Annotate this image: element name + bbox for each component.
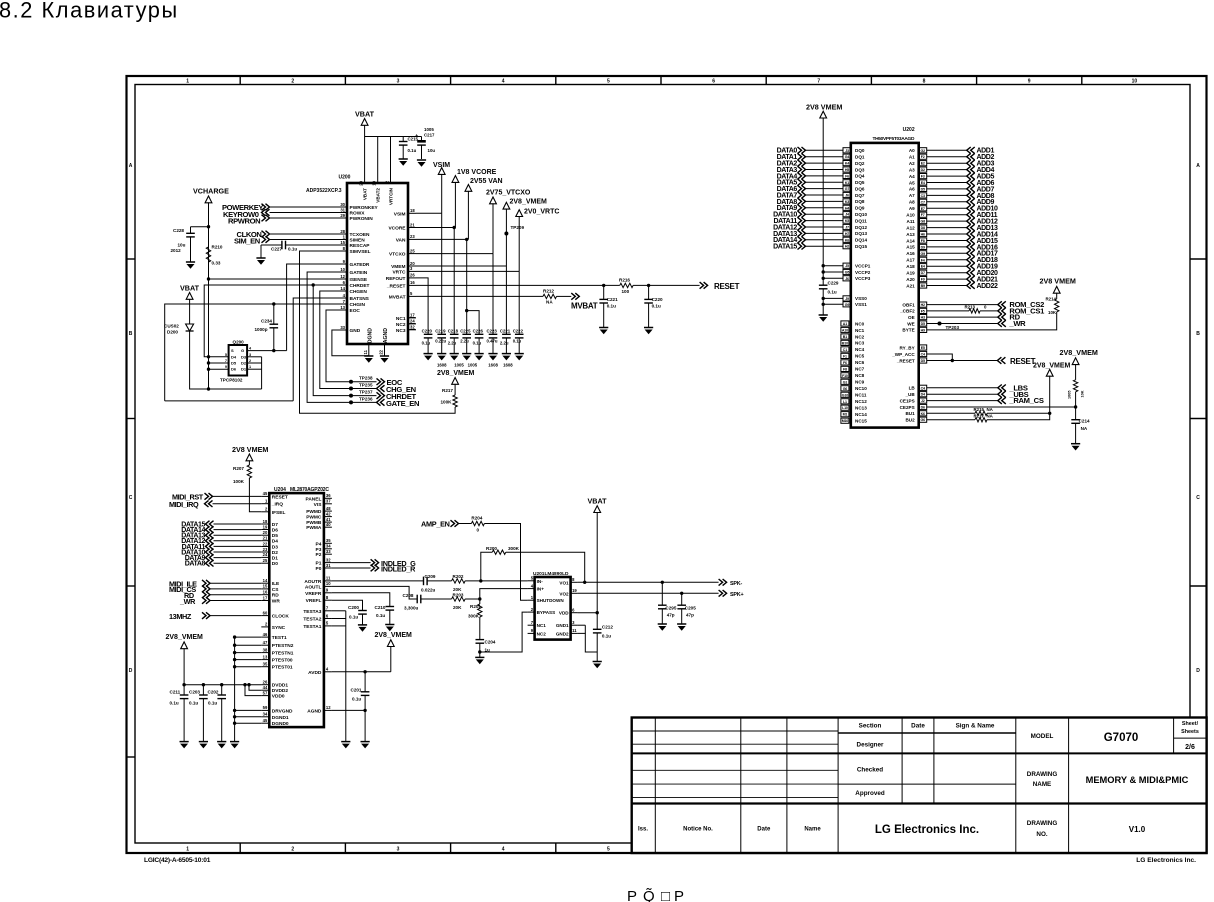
resistor R204 [471, 521, 484, 525]
svg-text:10u: 10u [178, 243, 186, 248]
ground C215 [399, 158, 408, 160]
wire VO1 long [578, 581, 719, 583]
ground C200 [358, 624, 367, 626]
svg-text:A9: A9 [909, 206, 915, 211]
svg-text:3: 3 [397, 79, 400, 85]
svg-text:PWMA: PWMA [306, 525, 322, 531]
svg-text:C226: C226 [473, 329, 484, 334]
svg-text:MIDI_IRQ: MIDI_IRQ [169, 500, 199, 509]
svg-text:G8: G8 [920, 220, 925, 224]
svg-text:D6: D6 [231, 367, 237, 372]
svg-text:0.1u: 0.1u [208, 701, 217, 706]
pin CE1PS [919, 398, 927, 403]
svg-text:CHGEN: CHGEN [350, 289, 368, 295]
junction C295 [661, 581, 664, 584]
svg-text:E4: E4 [921, 265, 925, 269]
svg-text:20: 20 [263, 530, 268, 535]
svg-text:RESET: RESET [714, 282, 740, 291]
svg-text:TP236: TP236 [359, 396, 373, 401]
svg-text:Sheets: Sheets [1181, 729, 1199, 735]
svg-text:2.2u: 2.2u [500, 341, 509, 346]
svg-text:DQ5: DQ5 [855, 180, 865, 185]
svg-text:Date: Date [757, 827, 771, 833]
svg-text:Р: Р [674, 888, 684, 902]
svg-text:E5: E5 [921, 346, 925, 350]
svg-text:PTESTN1: PTESTN1 [272, 651, 294, 657]
signal ADD21 [919, 277, 927, 282]
signal ADD18 [919, 257, 927, 262]
pin K1 [843, 180, 851, 185]
svg-text:TP209: TP209 [511, 225, 525, 230]
svg-text:DQ6: DQ6 [855, 186, 865, 191]
svg-text:D3: D3 [272, 545, 278, 551]
svg-text:100K: 100K [441, 400, 453, 405]
svg-text:VSIM: VSIM [394, 211, 406, 217]
inner frame [135, 85, 1190, 844]
svg-text:NC12: NC12 [855, 399, 867, 404]
svg-text:11: 11 [363, 349, 368, 354]
svg-text:C225: C225 [460, 329, 471, 334]
svg-text:R217: R217 [974, 414, 985, 419]
svg-text:_CBF2: _CBF2 [899, 309, 915, 314]
wire to C228 [191, 226, 209, 228]
resistor R202 [452, 579, 466, 583]
svg-text:1005: 1005 [424, 127, 434, 132]
svg-text:C201: C201 [351, 688, 362, 693]
svg-text:OBF1: OBF1 [902, 302, 915, 307]
svg-text:A10: A10 [906, 213, 915, 218]
svg-text:R207: R207 [233, 466, 244, 471]
svg-text:M10: M10 [842, 419, 849, 423]
capacitor C228 [186, 232, 195, 234]
svg-text:A12: A12 [906, 225, 915, 230]
svg-text:IFSEL: IFSEL [272, 510, 286, 516]
svg-text:CE2PS: CE2PS [900, 405, 915, 410]
wire rail1 [209, 388, 262, 390]
svg-text:2012: 2012 [171, 248, 182, 253]
svg-text:40: 40 [326, 522, 331, 527]
svg-text:C1: C1 [843, 348, 847, 352]
pins left U204 [261, 495, 269, 497]
pins Q200 right [247, 356, 262, 358]
svg-text:VMEM: VMEM [391, 264, 405, 270]
svg-text:NC6: NC6 [855, 360, 865, 365]
svg-text:D4: D4 [272, 539, 278, 545]
diode D200 [186, 324, 194, 331]
svg-text:22: 22 [379, 349, 384, 354]
ground C222 [515, 353, 524, 355]
svg-text:A1: A1 [843, 322, 847, 326]
svg-text:SYNC: SYNC [272, 625, 286, 631]
title block vertical lines [654, 718, 656, 854]
svg-text:A0: A0 [909, 148, 915, 153]
svg-text:K3: K3 [845, 200, 849, 204]
svg-text:1: 1 [249, 365, 251, 369]
svg-text:ROWX: ROWX [350, 211, 366, 217]
svg-text:8.2 Клавиатуры: 8.2 Клавиатуры [0, 0, 179, 23]
resistor R214 [1055, 299, 1059, 312]
wire MVBAT out [557, 295, 572, 297]
svg-text:D5: D5 [272, 533, 278, 539]
svg-text:GATEDR: GATEDR [350, 262, 370, 268]
svg-text:G2: G2 [920, 149, 925, 153]
capacitor C222 [515, 333, 524, 335]
svg-text:C217: C217 [424, 133, 435, 138]
svg-text:C228: C228 [173, 228, 184, 233]
svg-text:100K: 100K [233, 479, 245, 484]
svg-text:D4: D4 [231, 354, 237, 359]
svg-text:R201: R201 [470, 604, 481, 609]
wire CHRDET to TP [313, 285, 351, 396]
svg-text:R215: R215 [974, 407, 985, 412]
signal RESET output [700, 282, 704, 289]
svg-text:LGIC(42)-A-6505-10:01: LGIC(42)-A-6505-10:01 [144, 857, 211, 864]
svg-text:0.1u: 0.1u [349, 615, 358, 620]
signal ADD14 [919, 231, 927, 236]
wire CHGIN route [165, 304, 339, 401]
svg-text:28: 28 [340, 229, 345, 234]
svg-text:Approved: Approved [855, 790, 885, 797]
svg-text:R204: R204 [471, 516, 482, 521]
svg-text:0.33: 0.33 [212, 261, 221, 266]
frame column ticks [239, 76, 241, 85]
svg-text:D6: D6 [921, 406, 925, 410]
pin F6 [843, 173, 851, 178]
svg-text:42: 42 [326, 511, 331, 516]
svg-text:2V8 VMEM: 2V8 VMEM [1040, 277, 1076, 286]
svg-text:2/6: 2/6 [1185, 744, 1195, 751]
memory RY_BY pins [919, 345, 927, 350]
memory VCCP pins [823, 265, 843, 267]
svg-text:PWMD: PWMD [306, 509, 322, 515]
outer frame [127, 76, 1207, 853]
resistor R207 [247, 465, 251, 478]
svg-text:C227: C227 [271, 247, 282, 252]
svg-text:NA: NA [1081, 426, 1088, 431]
pin BU2 [919, 417, 927, 422]
svg-text:19: 19 [372, 180, 377, 185]
svg-text:D5: D5 [921, 322, 925, 326]
svg-text:B9: B9 [921, 284, 925, 288]
title block outer [632, 718, 1207, 854]
svg-text:C220: C220 [422, 329, 433, 334]
pin LB [919, 385, 927, 390]
svg-text:CLOCK: CLOCK [272, 614, 290, 620]
signal ADD13 [919, 225, 927, 230]
signal ADD8 [919, 193, 927, 198]
svg-text:Р: Р [627, 888, 637, 902]
svg-text:60: 60 [263, 610, 268, 615]
svg-text:1u: 1u [485, 648, 491, 653]
wire DVDD2 route [249, 685, 261, 691]
testpoint TP237 [349, 394, 353, 398]
svg-text:TH50VPF5T03AAGD: TH50VPF5T03AAGD [873, 136, 915, 142]
svg-text:25: 25 [263, 558, 268, 563]
svg-text:7: 7 [225, 359, 227, 363]
pin H5 [843, 167, 851, 172]
svg-text:1V8 VCORE: 1V8 VCORE [457, 169, 497, 176]
resistor R217 pullup [453, 395, 457, 407]
svg-text:Designer: Designer [857, 742, 884, 749]
signal _RAM_CS [998, 397, 1002, 404]
ground C223 [488, 353, 497, 355]
svg-text:U200: U200 [339, 175, 351, 181]
wire Q200 right vertical [261, 357, 263, 389]
svg-text:NC4: NC4 [855, 347, 865, 352]
wire GND1 GND2 [584, 625, 586, 633]
svg-text:0.1u: 0.1u [170, 701, 179, 706]
svg-text:C202: C202 [208, 690, 219, 695]
svg-text:F1: F1 [843, 354, 847, 358]
pins right U204 [324, 497, 332, 499]
svg-text:BU2: BU2 [905, 418, 915, 423]
signal EOC out [377, 378, 381, 385]
ground C219 [437, 353, 446, 355]
wire RESET input [927, 360, 998, 362]
svg-text:F9: F9 [921, 278, 925, 282]
wire AVDD [332, 671, 391, 673]
svg-text:R202: R202 [453, 574, 464, 579]
svg-text:J6: J6 [845, 194, 849, 198]
signal ADD4 [919, 167, 927, 172]
svg-text:DQ14: DQ14 [855, 238, 867, 243]
svg-text:Sheet/: Sheet/ [1182, 721, 1199, 727]
svg-text:K4: K4 [845, 162, 849, 166]
svg-text:PWRONIN: PWRONIN [350, 216, 374, 222]
signal CHRDET out [377, 392, 381, 399]
svg-text:A19: A19 [906, 271, 915, 276]
svg-text:VBAT: VBAT [355, 110, 375, 119]
svg-text:B1: B1 [843, 335, 847, 339]
svg-text:2: 2 [291, 79, 294, 85]
capacitor C218 [450, 333, 459, 335]
signal ADD19 [919, 264, 927, 269]
svg-text:AOUTR: AOUTR [304, 579, 322, 585]
svg-text:C222: C222 [513, 329, 524, 334]
capacitor C220 [424, 333, 433, 335]
svg-text:WR: WR [272, 599, 281, 605]
signal ADD11 [919, 212, 927, 217]
svg-text:Section: Section [859, 723, 882, 730]
ground C220 dec [644, 327, 653, 329]
svg-text:D7: D7 [921, 271, 925, 275]
svg-text:16: 16 [263, 590, 268, 595]
svg-text:TP235: TP235 [359, 383, 373, 388]
svg-text:1005: 1005 [468, 363, 478, 368]
wire rail2 [165, 400, 294, 402]
svg-text:29: 29 [340, 213, 345, 218]
wire _RESET long line [416, 284, 620, 286]
svg-text:C204: C204 [485, 640, 496, 645]
svg-text:MODEL: MODEL [1031, 733, 1054, 740]
svg-text:0.1u: 0.1u [828, 290, 837, 295]
svg-text:U201LM4890LD: U201LM4890LD [533, 571, 569, 577]
svg-text:0.22u: 0.22u [435, 339, 446, 344]
svg-text:36: 36 [326, 493, 331, 498]
svg-text:_RESET: _RESET [896, 358, 915, 363]
svg-text:DQ15: DQ15 [855, 244, 867, 249]
wire BYTE to R214 [927, 312, 1057, 330]
svg-text:H7: H7 [845, 232, 849, 236]
svg-text:0.1u: 0.1u [602, 634, 611, 639]
svg-text:48: 48 [326, 506, 331, 511]
svg-text:_WR: _WR [179, 597, 196, 606]
wire DVDD bus [184, 684, 261, 686]
svg-text:+: + [415, 134, 418, 140]
junction C221dec [602, 284, 605, 287]
svg-text:DQ4: DQ4 [855, 174, 865, 179]
svg-text:D2: D2 [272, 550, 278, 556]
svg-text:B: B [129, 331, 133, 337]
wire REFOUT to cap [416, 278, 428, 334]
wire AOUTR long [332, 580, 424, 582]
svg-text:30: 30 [340, 202, 345, 207]
svg-text:NC1: NC1 [855, 328, 865, 333]
signal INDLED_G [332, 562, 371, 564]
pin H4 [843, 205, 851, 210]
svg-text:BU1: BU1 [905, 411, 915, 416]
junction C220dec [647, 284, 650, 287]
svg-text:DRAWING: DRAWING [1027, 771, 1058, 778]
svg-text:14: 14 [340, 286, 345, 291]
svg-text:DQ0: DQ0 [855, 148, 865, 153]
wire VBAT pins [364, 137, 366, 184]
svg-text:C200: C200 [348, 605, 359, 610]
pins Q200 left [209, 356, 229, 358]
svg-text:CHGIN: CHGIN [350, 302, 366, 308]
ground AGND midi [361, 741, 370, 743]
signal SPK- out [719, 579, 723, 586]
svg-text:0.1u: 0.1u [408, 148, 417, 153]
svg-text:DATA15: DATA15 [773, 244, 797, 251]
svg-text:21: 21 [263, 536, 268, 541]
svg-text:7: 7 [817, 79, 820, 85]
svg-text:NAME: NAME [1033, 781, 1052, 788]
svg-text:C221: C221 [500, 329, 511, 334]
svg-text:J3: J3 [845, 149, 849, 153]
memory VSS pins [823, 297, 843, 299]
svg-text:MVBAT: MVBAT [571, 302, 598, 311]
svg-text:J5: J5 [845, 264, 849, 268]
svg-text:F7: F7 [921, 213, 925, 217]
wire CE2PS long [927, 406, 1076, 408]
ground AGND [380, 355, 389, 357]
resistor R218 [927, 419, 975, 421]
svg-text:RESET: RESET [272, 494, 288, 500]
svg-text:25: 25 [410, 248, 415, 253]
svg-text:C210: C210 [375, 605, 386, 610]
capacitor C217 electrolytic [421, 137, 423, 142]
capacitor C225 [462, 333, 471, 335]
wire TESTA bus [332, 610, 346, 612]
pin OBF1 [919, 302, 927, 307]
svg-text:15: 15 [340, 240, 345, 245]
svg-text:D2: D2 [921, 168, 925, 172]
amp U201 outline [535, 577, 571, 640]
wire PTEST bus [235, 636, 262, 638]
svg-text:47: 47 [263, 640, 268, 645]
svg-text:H4: H4 [845, 206, 849, 210]
svg-text:M1: M1 [843, 413, 848, 417]
svg-text:3: 3 [249, 353, 251, 357]
svg-text:ML2870AGPZ02C: ML2870AGPZ02C [290, 487, 329, 493]
pin H2 [843, 244, 851, 249]
signal ADD5 [919, 174, 927, 179]
svg-text:VCCP1: VCCP1 [855, 264, 871, 269]
capacitor C211 [180, 694, 189, 696]
svg-text:MVBAT: MVBAT [389, 294, 406, 300]
svg-text:C: C [1196, 495, 1200, 501]
svg-text:20K: 20K [453, 587, 462, 592]
ground C211 [180, 741, 189, 743]
signal ADD9 [919, 199, 927, 204]
svg-text:A3: A3 [909, 167, 915, 172]
pin DGND bottom [368, 344, 370, 356]
svg-text:H6: H6 [921, 233, 925, 237]
svg-text:RY_BY: RY_BY [900, 345, 915, 350]
svg-text:VSS1: VSS1 [855, 302, 867, 307]
svg-text:G9: G9 [920, 252, 925, 256]
svg-text:DATA8: DATA8 [185, 561, 206, 568]
svg-text:2V8_VMEM: 2V8_VMEM [510, 199, 548, 206]
svg-text:DQ10: DQ10 [855, 212, 867, 217]
svg-text:16: 16 [410, 280, 415, 285]
testpoint TP203 [938, 322, 942, 326]
ground C204 [475, 656, 484, 658]
capacitor C212 [593, 628, 602, 630]
svg-text:DQ9: DQ9 [855, 206, 865, 211]
testpoint TP238 [349, 380, 353, 384]
svg-text:2V8 VMEM: 2V8 VMEM [806, 103, 842, 112]
svg-text:DQ13: DQ13 [855, 231, 867, 236]
svg-text:SIMVSEL: SIMVSEL [350, 249, 371, 255]
svg-text:R203: R203 [453, 593, 464, 598]
wire ISENSE row [209, 278, 340, 280]
svg-text:DGND1: DGND1 [272, 715, 289, 721]
svg-text:32: 32 [410, 325, 415, 330]
pin J6 [843, 192, 851, 197]
svg-text:18: 18 [410, 208, 415, 213]
svg-text:DQ11: DQ11 [855, 218, 867, 223]
capacitor C201 [364, 672, 366, 692]
svg-text:TPCP8102: TPCP8102 [220, 378, 243, 383]
svg-text:A18: A18 [906, 264, 915, 269]
svg-text:C211: C211 [170, 690, 181, 695]
svg-text:DGND: DGND [367, 328, 373, 344]
memory U202 outline [851, 143, 919, 428]
svg-text:Sign & Name: Sign & Name [956, 723, 995, 730]
svg-text:D5: D5 [921, 359, 925, 363]
wire GND pin route [332, 330, 369, 356]
svg-text:DRVGND: DRVGND [272, 708, 293, 714]
svg-text:NA: NA [987, 414, 994, 419]
svg-text:D0: D0 [272, 561, 278, 567]
svg-text:VTCXO: VTCXO [389, 252, 406, 258]
capacitor C203 [202, 685, 204, 695]
wire AMP_EN to SHUTDOWN [484, 524, 527, 601]
svg-text:_UB: _UB [904, 392, 915, 397]
title block horizontal lines [632, 752, 1207, 754]
svg-text:R214: R214 [1046, 297, 1057, 302]
svg-text:H2: H2 [845, 245, 849, 249]
svg-text:33: 33 [326, 549, 331, 554]
svg-text:NC1: NC1 [396, 316, 406, 322]
svg-text:LG Electronics Inc.: LG Electronics Inc. [875, 824, 979, 836]
resistor R226 vertical [1073, 380, 1077, 392]
junction C234 node [272, 349, 275, 352]
svg-text:H5: H5 [845, 168, 849, 172]
svg-text:SHUTDOWN: SHUTDOWN [537, 598, 565, 603]
